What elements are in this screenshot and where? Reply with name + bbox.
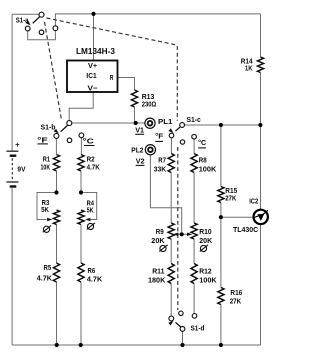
svg-text:R: R <box>110 73 114 82</box>
svg-text:°C: °C <box>198 138 206 147</box>
svg-text:V1: V1 <box>135 126 145 135</box>
svg-text:100K: 100K <box>199 276 217 285</box>
svg-text:R7: R7 <box>158 155 166 164</box>
svg-text:R5: R5 <box>44 263 52 272</box>
svg-text:27K: 27K <box>225 193 236 202</box>
svg-text:230Ω: 230Ω <box>142 99 157 108</box>
svg-text:V+: V+ <box>88 61 98 70</box>
svg-text:S1-d: S1-d <box>191 323 205 332</box>
svg-text:S1-a: S1-a <box>16 16 30 25</box>
svg-text:R8: R8 <box>199 155 207 164</box>
svg-text:IC1: IC1 <box>86 71 96 80</box>
svg-text:PL2: PL2 <box>131 145 143 154</box>
svg-text:4.7K: 4.7K <box>87 274 103 283</box>
svg-text:4.7K: 4.7K <box>37 273 53 282</box>
svg-text:R9: R9 <box>156 227 164 236</box>
svg-text:°F: °F <box>155 132 163 141</box>
svg-text:+: + <box>15 140 19 149</box>
svg-text:1K: 1K <box>245 64 253 73</box>
svg-text:100K: 100K <box>199 164 217 173</box>
svg-text:R10: R10 <box>199 227 211 236</box>
svg-text:S1-b: S1-b <box>41 122 56 131</box>
svg-text:°C: °C <box>83 137 95 146</box>
svg-text:V2: V2 <box>136 157 145 166</box>
svg-text:10K: 10K <box>41 163 51 172</box>
svg-text:9V: 9V <box>17 164 26 173</box>
svg-text:33K: 33K <box>154 164 167 173</box>
svg-text:TL430C: TL430C <box>233 225 259 234</box>
svg-text:R12: R12 <box>199 267 211 276</box>
svg-text:27K: 27K <box>230 296 242 305</box>
svg-text:4.7K: 4.7K <box>87 163 101 172</box>
svg-text:PL1: PL1 <box>158 117 173 126</box>
svg-text:V−: V− <box>88 84 99 93</box>
svg-text:20K: 20K <box>199 236 212 245</box>
svg-text:IC2: IC2 <box>249 196 258 205</box>
svg-text:5K: 5K <box>87 206 94 215</box>
svg-text:LM134H-3: LM134H-3 <box>76 46 115 56</box>
svg-text:180K: 180K <box>148 276 166 285</box>
svg-text:20K: 20K <box>151 236 165 245</box>
svg-text:S1-c: S1-c <box>187 115 201 124</box>
svg-text:°F: °F <box>37 135 48 144</box>
svg-text:R11: R11 <box>152 267 165 276</box>
svg-text:5K: 5K <box>41 205 49 214</box>
